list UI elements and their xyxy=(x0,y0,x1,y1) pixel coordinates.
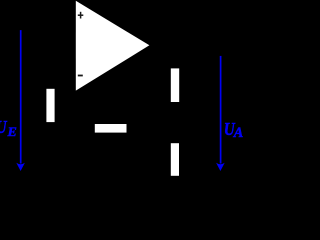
resistor R1 (left vertical) xyxy=(46,89,54,122)
svg-text:E: E xyxy=(6,124,17,138)
op-amp U1 xyxy=(76,1,150,91)
op-amp U1 inverting input label - xyxy=(78,75,83,77)
resistor R4 (right lower vertical) xyxy=(171,143,179,176)
op-amp U1 non-inverting input label + xyxy=(78,12,84,19)
resistor R2 (middle horizontal, feedback) xyxy=(95,124,127,133)
svg-text:A: A xyxy=(233,125,243,141)
output voltage arrow U_A head xyxy=(216,163,225,171)
label U_A xyxy=(224,119,243,141)
input voltage arrow U_E head xyxy=(16,163,25,171)
label U_E xyxy=(0,117,17,139)
resistor R3 (right upper vertical) xyxy=(171,68,179,102)
svg-text:U: U xyxy=(0,117,7,138)
output voltage arrow U_A shaft xyxy=(220,56,222,164)
input voltage arrow U_E shaft xyxy=(20,30,22,163)
